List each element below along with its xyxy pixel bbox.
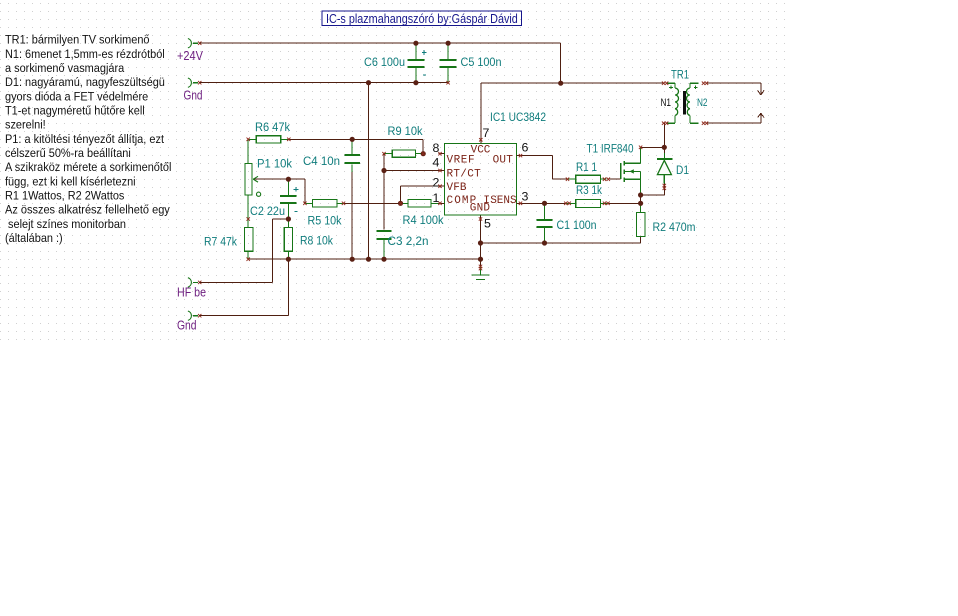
wire IC pin5 gnd drop [480,215,482,275]
label R3 1k [576,183,603,197]
svg-text:R4 100k: R4 100k [403,213,445,227]
pin number 6 [522,141,529,155]
connector HF be [188,278,202,287]
ground [472,275,490,279]
svg-text:(általában :): (általában :) [5,231,63,245]
wire OUT net [523,156,568,180]
svg-text:R8 10k: R8 10k [300,233,334,247]
wire RT/CT [384,170,439,172]
wire C2 bottom lead [287,204,289,219]
svg-text:célszerű 50%-ra beállítani: célszerű 50%-ra beállítani [5,146,131,160]
svg-text:HF be: HF be [177,285,206,299]
svg-text:7: 7 [483,126,490,140]
wire R3 to source node [609,202,641,204]
pin number 7 [483,126,490,140]
svg-text:TR1: bármilyen TV sorkimenő: TR1: bármilyen TV sorkimenő [5,33,150,47]
pin number 8 [433,141,440,155]
svg-text:4: 4 [433,155,440,169]
connector Gnd (top) [188,78,202,87]
pin name VFB [447,182,467,194]
wire N2 top net [707,83,761,95]
label T1 IRF840 [587,142,634,156]
resistor R2 [637,203,646,236]
svg-text:gyors dióda a FET védelmére: gyors dióda a FET védelmére [5,89,148,103]
pin name COMP [447,195,478,207]
svg-text:6: 6 [522,141,529,155]
pin cross marks [247,81,709,270]
svg-text:P1 10k: P1 10k [257,157,293,171]
label R1 1 [576,160,597,174]
svg-text:T1 IRF840: T1 IRF840 [587,142,634,156]
wire D1 top lead [663,147,665,158]
label C3 2,2n [388,234,429,248]
svg-text:N2: N2 [697,97,708,109]
svg-text:GND: GND [470,202,491,214]
label R9 10k [388,124,424,138]
pin number 2 [433,176,440,190]
label Gnd (bottom) [177,318,197,332]
IC pin stubs left [439,154,445,204]
pin name VCC [471,145,491,157]
label C6 100u [364,55,405,69]
svg-text:R1 1Wattos, R2 2Wattos: R1 1Wattos, R2 2Wattos [5,188,124,202]
label R4 100k [403,213,445,227]
svg-text:RT/CT: RT/CT [447,169,482,181]
svg-text:1: 1 [433,191,440,205]
C6 minus mark [423,74,426,76]
pin number 4 [433,155,440,169]
label N2 [697,97,708,109]
transformer TR1 winding N1 [667,83,679,123]
svg-text:C3 2,2n: C3 2,2n [388,234,429,248]
wire C4 leads [351,139,353,259]
svg-text:8: 8 [433,141,440,155]
resistor R7 [244,228,253,252]
pin number 1 [433,191,440,205]
transformer TR1 winding N2 [687,83,699,123]
wire gnd bus right [481,237,641,244]
label R6 47k [255,120,291,134]
wire source to R2 [640,195,642,203]
IC pin stubs right [517,156,523,204]
wire VCC pin7 drop [480,83,482,140]
spark gap down arrow [758,90,765,95]
op-amp U1 (IC1 UC3842 box) [445,144,517,216]
svg-text:Gnd: Gnd [177,318,197,332]
resistor R3 [566,199,610,207]
wire R6-R9 node [288,139,424,153]
wire COMP node [305,202,439,204]
notes text block [5,33,171,245]
svg-text:N1: 6menet 1,5mm-es rézdrótból: N1: 6menet 1,5mm-es rézdrótból [5,47,165,61]
svg-text:Gnd: Gnd [184,89,203,103]
wire P1 wiper net [253,179,305,203]
wire R6 to P1 [247,139,249,163]
label R8 10k [300,233,334,247]
wire P1-R7 leads [247,195,249,259]
IC pin stub top [480,140,482,144]
svg-text:selejt színes monitorban: selejt színes monitorban [5,217,126,231]
label C4 10n [303,154,340,168]
label TR1 [671,68,689,82]
label IC1 UC3842 [490,110,546,124]
diode D1 [657,158,672,183]
pin name OUT [493,155,514,167]
svg-text:T1-et nagyméretű hűtőre kell: T1-et nagyméretű hűtőre kell [5,103,145,117]
label R5 10k [308,213,343,227]
transistor Q1 (T1 IRF840) [621,147,641,195]
pin number 3 [522,190,529,204]
wire R9 left drop [383,154,385,171]
svg-text:R1 1: R1 1 [576,160,597,174]
wire C2 top lead [287,179,289,195]
svg-text:VREF: VREF [447,155,476,167]
resistor R4 [401,200,439,207]
svg-text:R6 47k: R6 47k [255,120,291,134]
svg-text:D1: D1 [676,163,689,177]
pin name ISENS [483,195,517,207]
label R2 470m [653,220,696,234]
capacitor C5 [440,43,457,82]
label C1 100n [557,218,597,232]
wire VFB [401,186,439,203]
svg-text:IC-s plazmahangszóró by:Gáspár: IC-s plazmahangszóró by:Gáspár Dávid [326,11,518,26]
label Gnd (top) [184,89,203,103]
grid dots canvas [0,0,786,344]
wire Gnd rail [200,82,448,84]
C2 minus mark [295,210,298,212]
svg-text:5: 5 [484,217,491,231]
svg-text:R3 1k: R3 1k [576,183,603,197]
wire gate [610,178,621,180]
svg-text:szerelni!: szerelni! [5,118,46,132]
wire gnd main vertical [368,83,370,260]
wire N1 bottom drop [663,123,665,147]
svg-text:SENS: SENS [490,195,517,207]
connector Gnd (bottom) [188,311,202,320]
pin name RT/CT [447,169,482,181]
resistor R6 [248,136,287,143]
label N1 [661,97,672,109]
pin name GND [470,202,491,214]
svg-text:C2 22u: C2 22u [250,204,285,218]
svg-text:R9 10k: R9 10k [388,124,424,138]
label C5 100n [461,55,502,69]
capacitor C6 [408,43,425,82]
label +24V [177,49,204,63]
svg-text:TR1: TR1 [671,68,689,82]
wire C3 vertical [383,171,385,260]
wire R8 leads [287,219,289,259]
wire gnd bus left [248,258,480,260]
wire ISENS net [523,202,566,204]
wire drain node [641,146,665,148]
resistor R9 [384,150,423,157]
svg-text:C4 10n: C4 10n [303,154,340,168]
svg-text:függ, ezt ki kell kísérletezni: függ, ezt ki kell kísérletezni [5,174,136,188]
svg-text:+24V: +24V [177,49,204,63]
svg-text:C6 100u: C6 100u [364,55,405,69]
C2 plus mark [294,187,299,192]
transformer TR1 core [683,91,686,115]
wire +24V rail [200,42,561,44]
pin name VREF [447,155,476,167]
spark gap up arrow [758,113,764,117]
junction dots [286,41,667,262]
wire D1 bottom lead [641,183,665,195]
resistor R8 [284,228,292,252]
capacitor C3 [376,230,391,240]
svg-text:R5 10k: R5 10k [308,213,343,227]
pin number 5 [484,217,491,231]
svg-text:a sorkimenő vasmagjára: a sorkimenő vasmagjára [5,61,124,75]
C6 plus mark [422,50,427,55]
svg-text:C1 100n: C1 100n [557,218,597,232]
label R7 47k [204,234,238,248]
wire VCC branch [481,82,664,84]
resistor R5 [305,200,344,207]
svg-text:VFB: VFB [447,182,467,194]
svg-text:N1: N1 [661,97,672,109]
title box [322,11,522,26]
svg-text:OUT: OUT [493,155,514,167]
svg-text:P1: a kitöltési tényezőt állít: P1: a kitöltési tényezőt állítja, ezt [5,132,164,146]
svg-text:Az összes alkatrész fellelhető: Az összes alkatrész fellelhető egy [5,203,171,217]
svg-text:3: 3 [522,190,529,204]
wire +24V rail drop [560,43,562,83]
resistor R1 [568,175,607,183]
label HF be [177,285,206,299]
svg-text:R7 47k: R7 47k [204,234,238,248]
capacitor C1 [536,203,552,243]
label D1 [676,163,689,177]
wire Gnd2 net [200,259,289,316]
svg-text:R2 470m: R2 470m [653,220,696,234]
wire N2 bottom net [707,113,761,123]
label C2 22u [250,204,285,218]
wire HF be net [200,219,289,282]
svg-text:A szikraköz mérete a sorkimenő: A szikraköz mérete a sorkimenőtől [5,160,171,174]
capacitor C4 [345,154,360,164]
label P1 10k [257,157,293,171]
connector +24V [188,39,202,48]
potentiometer P1 [245,163,261,196]
svg-text:C5 100n: C5 100n [461,55,502,69]
svg-text:IC1 UC3842: IC1 UC3842 [490,110,546,124]
svg-text:D1: nagyáramú, nagyfeszültségü: D1: nagyáramú, nagyfeszültségü [5,75,165,89]
capacitor C2 [280,195,296,204]
